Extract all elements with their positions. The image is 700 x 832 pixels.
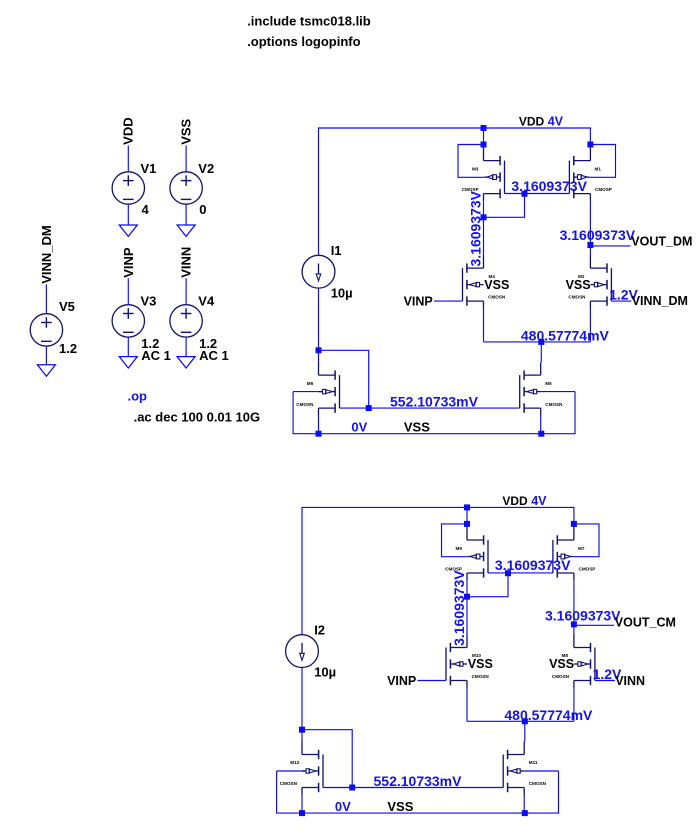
svg-text:1.2: 1.2 <box>59 341 77 356</box>
svg-text:M7: M7 <box>578 546 585 551</box>
svg-text:0V: 0V <box>351 420 367 435</box>
svg-text:V3: V3 <box>141 293 157 308</box>
svg-text:M6: M6 <box>307 381 314 386</box>
svg-text:3.1609373V: 3.1609373V <box>545 607 621 623</box>
svg-text:552.10733mV: 552.10733mV <box>390 394 479 410</box>
svg-text:VINP: VINP <box>404 295 433 309</box>
svg-text:VINN_DM: VINN_DM <box>632 294 688 308</box>
svg-text:V2: V2 <box>198 161 214 176</box>
svg-text:M5: M5 <box>545 381 552 386</box>
svg-text:VSS: VSS <box>179 118 194 144</box>
svg-text:V1: V1 <box>141 161 157 176</box>
svg-text:10µ: 10µ <box>314 665 336 680</box>
svg-text:VSS: VSS <box>566 278 591 292</box>
svg-text:480.57774mV: 480.57774mV <box>521 327 610 343</box>
svg-text:CMOSN: CMOSN <box>472 674 490 679</box>
svg-text:M8: M8 <box>562 653 569 658</box>
svg-text:4V: 4V <box>531 494 547 508</box>
svg-text:VSS: VSS <box>404 420 430 435</box>
svg-text:CMOSN: CMOSN <box>280 781 298 786</box>
svg-text:AC 1: AC 1 <box>141 348 171 363</box>
svg-text:M4: M4 <box>489 274 496 279</box>
svg-text:I2: I2 <box>314 622 325 637</box>
svg-text:M11: M11 <box>529 760 538 765</box>
svg-text:VINN: VINN <box>615 674 645 688</box>
svg-text:VSS: VSS <box>549 657 574 671</box>
svg-text:M10: M10 <box>472 653 481 658</box>
svg-text:VINN: VINN <box>179 247 194 278</box>
svg-text:CMOSP: CMOSP <box>579 566 596 571</box>
svg-text:4: 4 <box>142 202 150 217</box>
svg-text:I1: I1 <box>331 243 342 258</box>
svg-text:VSS: VSS <box>387 799 413 814</box>
svg-text:.include tsmc018.lib: .include tsmc018.lib <box>247 14 371 29</box>
svg-text:M12: M12 <box>290 760 299 765</box>
svg-text:0V: 0V <box>335 799 351 814</box>
svg-text:CMOSN: CMOSN <box>529 781 547 786</box>
svg-text:CMOSN: CMOSN <box>296 402 314 407</box>
svg-text:.options logopinfo: .options logopinfo <box>247 34 360 49</box>
svg-text:AC 1: AC 1 <box>199 348 229 363</box>
svg-text:10µ: 10µ <box>331 285 353 300</box>
svg-text:3.1609373V: 3.1609373V <box>511 178 587 194</box>
svg-text:M1: M1 <box>595 167 602 172</box>
svg-text:VSS: VSS <box>484 278 509 292</box>
svg-text:M3: M3 <box>472 167 479 172</box>
svg-text:480.57774mV: 480.57774mV <box>504 707 593 723</box>
svg-text:0: 0 <box>199 202 206 217</box>
svg-text:CMOSN: CMOSN <box>545 402 563 407</box>
svg-text:VOUT_CM: VOUT_CM <box>615 616 676 630</box>
svg-text:CMOSP: CMOSP <box>445 566 462 571</box>
svg-text:VDD: VDD <box>502 494 528 508</box>
svg-text:M9: M9 <box>456 546 463 551</box>
svg-text:4V: 4V <box>548 115 564 129</box>
svg-text:VINN_DM: VINN_DM <box>39 225 54 284</box>
svg-text:V4: V4 <box>198 293 215 308</box>
svg-text:V5: V5 <box>59 299 75 314</box>
svg-text:3.1609373V: 3.1609373V <box>560 227 636 243</box>
svg-text:3.1609373V: 3.1609373V <box>495 557 571 573</box>
svg-text:CMOSP: CMOSP <box>595 187 612 192</box>
svg-text:VDD: VDD <box>121 117 136 144</box>
svg-text:CMOSP: CMOSP <box>462 187 479 192</box>
svg-text:VOUT_DM: VOUT_DM <box>631 234 692 248</box>
svg-text:VSS: VSS <box>468 657 493 671</box>
svg-text:CMOSN: CMOSN <box>552 674 570 679</box>
svg-text:.op: .op <box>128 388 148 403</box>
svg-text:VINP: VINP <box>121 247 136 278</box>
svg-text:VINP: VINP <box>387 674 416 688</box>
svg-text:CMOSN: CMOSN <box>568 295 586 300</box>
svg-text:3.1609373V: 3.1609373V <box>467 190 483 266</box>
svg-text:VDD: VDD <box>519 115 545 129</box>
svg-text:.ac dec 100 0.01 10G: .ac dec 100 0.01 10G <box>134 410 260 425</box>
svg-text:552.10733mV: 552.10733mV <box>374 773 463 789</box>
svg-text:M2: M2 <box>578 274 585 279</box>
svg-text:CMOSN: CMOSN <box>488 295 506 300</box>
svg-text:3.1609373V: 3.1609373V <box>451 570 467 646</box>
